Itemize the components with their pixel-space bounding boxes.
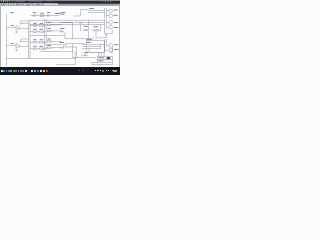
wire low link: [89, 46, 112, 52]
potentiometer RV1: [60, 30, 64, 33]
label R2: [40, 22, 43, 24]
bottom cluster component: [81, 54, 88, 56]
resistor R3: [33, 31, 37, 33]
wire top branch A: [7, 21, 29, 27]
taskbar: [0, 67, 120, 75]
label R6: [47, 28, 50, 30]
label R8: [40, 39, 43, 41]
amplifier block U2: [86, 41, 104, 53]
capacitor C4: [48, 14, 49, 17]
label Q6: [114, 27, 119, 29]
wire out A: [20, 27, 29, 29]
label Q2: [11, 42, 14, 44]
input chain wire: [31, 15, 61, 17]
label U1: [55, 12, 60, 14]
label Q3: [113, 9, 118, 11]
wire row4: [30, 48, 46, 50]
capacitor C1: [19, 27, 20, 30]
label source V1: [60, 41, 65, 43]
label Q4: [113, 14, 118, 16]
resistor R6: [47, 30, 51, 32]
transistor Q8: [109, 48, 113, 52]
label R12: [47, 44, 50, 46]
schematic canvas: [0, 0, 120, 75]
title block logo: [107, 57, 111, 59]
source V1 circle: [63, 44, 66, 47]
label C4: [47, 12, 50, 14]
label R10: [40, 45, 43, 47]
title bar icons left: [1, 1, 2, 2]
bus vertical V1: [27, 20, 29, 59]
capacitor C3: [34, 14, 35, 17]
wire out B: [20, 45, 29, 47]
wire q6 down: [105, 30, 113, 33]
wire box stub: [72, 50, 74, 52]
label R7: [33, 39, 36, 41]
window left border: [0, 5, 2, 67]
wire net W1: [30, 19, 105, 21]
crystal X1: [79, 22, 81, 24]
title block box: [97, 56, 112, 62]
resistor R8: [40, 42, 44, 44]
title bar icons right: [102, 1, 103, 2]
label R14: [60, 28, 65, 30]
label X1a: [84, 25, 89, 27]
resistor R11: [47, 41, 51, 43]
label Q5: [114, 22, 119, 24]
toolbar icons: [1, 4, 2, 5]
label Q1: [11, 24, 14, 26]
label Q8: [114, 49, 119, 51]
label netR: [86, 39, 92, 42]
resistor R2: [40, 25, 44, 27]
label bottom cluster: [84, 52, 89, 54]
resistor R12: [47, 47, 51, 49]
resistor R10: [40, 48, 44, 50]
label VCC: [89, 8, 94, 10]
wire bottom long: [73, 57, 96, 59]
resistor R16: [95, 30, 98, 31]
bus vertical V2: [29, 20, 31, 59]
vertical pair mid: [105, 19, 107, 33]
transistor Q4: [109, 14, 113, 18]
label R15: [94, 26, 99, 28]
wire r16: [92, 24, 101, 30]
wire row2: [30, 31, 46, 33]
node label NET1: [11, 12, 14, 14]
wire row1b: [51, 25, 62, 31]
resistor R13: [40, 15, 44, 17]
sheet frame bottom wire: [7, 57, 76, 59]
label C3: [33, 12, 36, 14]
transistor Q7: [109, 44, 113, 48]
label R11: [47, 38, 50, 40]
bus vertical V4: [45, 19, 47, 50]
bottom box outline: [40, 52, 75, 65]
label Q7: [114, 44, 119, 46]
resistor R9: [33, 48, 37, 50]
taskbar icons: [1, 70, 3, 72]
toolbar: [0, 3, 120, 6]
label R9: [33, 45, 36, 47]
wire top branch B: [7, 39, 29, 45]
wire down pair: [73, 43, 77, 57]
wire net W3: [30, 23, 105, 25]
resistor R4: [40, 31, 44, 33]
diode D1: [105, 34, 107, 35]
transistor Q1: [14, 25, 18, 30]
transistor Q6: [109, 25, 113, 29]
resistor R7: [33, 42, 37, 44]
vertical long right: [88, 20, 90, 39]
wire net W7: [82, 47, 101, 49]
label R13: [40, 12, 43, 14]
title block divider: [92, 60, 112, 65]
transistor Q5: [109, 21, 113, 25]
wire v1 out: [66, 43, 84, 47]
vertical pair low: [105, 39, 107, 52]
wire mid link: [61, 23, 73, 39]
wire mid low: [96, 31, 106, 38]
label R1: [33, 22, 36, 24]
bus vertical V3: [44, 19, 46, 50]
title block text: [98, 58, 104, 61]
wire vcc bus: [88, 10, 105, 12]
wire net W2: [46, 21, 104, 23]
wire row3: [30, 41, 46, 43]
label R3: [33, 28, 36, 30]
label R4: [40, 28, 43, 30]
wire row1: [30, 25, 46, 27]
ground GND1: [15, 31, 18, 33]
status strip: [0, 66, 120, 69]
net label text block: [61, 13, 66, 15]
wire net W6: [82, 44, 101, 48]
ground GND2: [15, 49, 18, 51]
transistor Q2: [14, 43, 18, 48]
sheet frame left vertical wire: [6, 14, 8, 66]
source V1 marks: [61, 48, 65, 49]
verticals above title block: [98, 52, 104, 56]
wire up right: [74, 10, 88, 16]
wire x1 down: [80, 24, 82, 31]
transistor Q3: [109, 9, 113, 13]
label X1b: [84, 29, 89, 31]
resistor R5: [47, 24, 51, 26]
wire down mid: [65, 32, 94, 39]
wire net W5: [30, 35, 65, 37]
wire row3b: [51, 41, 62, 47]
vertical pair top: [105, 8, 107, 18]
capacitor C2: [19, 45, 20, 48]
resistor R1: [33, 25, 37, 27]
title bar: [0, 0, 120, 4]
label R5: [47, 22, 50, 24]
wire net W4: [46, 43, 105, 45]
